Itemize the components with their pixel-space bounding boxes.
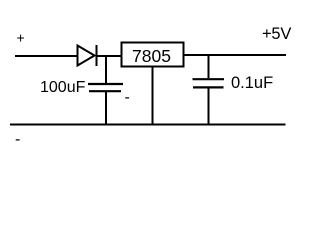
wire (diode cathode to regulator input, with junction to C1) [97, 55, 121, 57]
wire (junction down to C1 top plate) [105, 55, 107, 83]
svg-text:+: + [17, 30, 25, 46]
svg-text:0.1uF: 0.1uF [231, 74, 273, 92]
wire (C1 bottom plate to ground rail) [105, 92, 107, 125]
capacitor C2 0.1uF (output ceramic) [193, 79, 225, 87]
value label 0.1uF [231, 74, 273, 92]
capacitor C1 100uF (input electrolytic) [88, 84, 123, 91]
wire (regulator ground pin to ground rail) [152, 67, 154, 125]
node + (positive input terminal label) [17, 30, 25, 46]
value label 100uF [40, 79, 86, 96]
svg-text:-: - [125, 89, 130, 106]
wire output (regulator output to +5V rail, junction to C2) [184, 54, 286, 56]
svg-text:7805: 7805 [132, 46, 171, 66]
svg-text:+5V: +5V [262, 25, 291, 43]
node - (negative input terminal label) [15, 131, 20, 148]
value label 7805 [132, 46, 171, 66]
diode D1 (series protection diode) [78, 45, 97, 66]
polarity mark - (C1 negative) [125, 89, 130, 106]
wire ground rail (bottom return) [10, 124, 286, 126]
wire (C2 bottom plate to ground rail) [208, 88, 210, 125]
wire (output junction down to C2 top plate) [208, 55, 210, 78]
svg-text:100uF: 100uF [40, 79, 86, 96]
op-amp U1: voltage regulator 7805 box [122, 43, 184, 67]
svg-text:-: - [15, 131, 20, 148]
wire input (left rail to diode anode) [15, 55, 77, 57]
node +5V (output terminal label) [262, 25, 291, 43]
